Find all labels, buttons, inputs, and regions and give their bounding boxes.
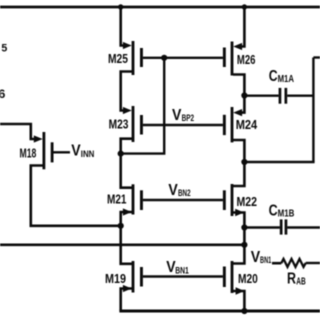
wire VSS bottom rail: [119, 310, 320, 313]
node dot top rail left: [118, 4, 123, 9]
wire M23 source down to node A: [121, 139, 133, 154]
wire M25 drain feed from top rail: [121, 7, 124, 46]
wire VBN1 stub to resistor RAB: [272, 262, 281, 265]
node dot E: [241, 224, 247, 230]
transistor M26 gate bar: [223, 48, 226, 68]
transistor M20 arrow: [236, 287, 245, 294]
wire node B down to M19 drain: [121, 226, 133, 264]
wire node A down to M21 drain: [121, 154, 133, 188]
svg-text:M22: M22: [237, 194, 258, 209]
wire CM1A right side to vertical branch: [287, 94, 313, 96]
svg-text:M21: M21: [107, 192, 127, 207]
wire M22 arrow bend and source down to node E: [233, 213, 244, 228]
svg-text:BP2: BP2: [182, 113, 195, 124]
svg-text:M18: M18: [20, 146, 37, 161]
wire right vertical branch: [312, 58, 314, 163]
wire top stub to right edge: [313, 56, 320, 58]
wire CM1B right side to right edge: [287, 226, 320, 228]
transistor M19 gate bar: [140, 267, 143, 287]
svg-text:INN: INN: [81, 149, 95, 160]
svg-text:M19: M19: [105, 271, 126, 286]
wire node E down to M20 drain: [233, 228, 244, 264]
svg-text:V: V: [71, 143, 81, 160]
transistor M22 gate bar: [223, 190, 226, 210]
wire M25 source down to M23 drain: [121, 72, 133, 111]
svg-text:5: 5: [1, 42, 7, 54]
transistor M21 arrow: [123, 208, 132, 215]
svg-text:C: C: [269, 68, 278, 85]
svg-text:BN2: BN2: [178, 188, 191, 199]
wire M19 source to bottom rail: [121, 289, 133, 312]
transistor M20 gate bar: [223, 267, 226, 288]
wire gate line M25-M26: [143, 57, 223, 59]
wire M18 drain from left edge: [0, 124, 34, 139]
svg-text:M24: M24: [236, 117, 258, 132]
transistor M19 arrow: [123, 285, 132, 292]
svg-text:M1B: M1B: [278, 208, 295, 219]
svg-text:AB: AB: [296, 277, 306, 288]
wire M18 source down to node B: [31, 166, 120, 226]
svg-text:BN1: BN1: [260, 255, 272, 266]
wire long rail to M22/M20 node: [0, 244, 244, 247]
wire gate line VBN1 M19-M20: [143, 275, 223, 277]
node dot C: [241, 92, 247, 98]
transistor M21 channel bar: [132, 184, 135, 214]
transistor M26 arrow: [233, 43, 242, 50]
transistor M23 arrow: [123, 107, 132, 114]
node dot D: [241, 159, 247, 165]
transistor M22 channel bar: [231, 184, 234, 216]
resistor RAB zigzag: [281, 259, 305, 267]
wire gate line VBN2 M21-M22: [143, 199, 223, 201]
node dot bottom rail: [241, 308, 247, 314]
svg-text:V: V: [168, 182, 178, 199]
transistor M24 gate bar: [223, 115, 226, 135]
svg-text:M1A: M1A: [278, 74, 294, 85]
svg-text:V: V: [172, 107, 182, 124]
wire M24 source down to node D: [233, 140, 244, 162]
capacitor CM1B plates: [280, 219, 283, 234]
transistor M18 arrow: [34, 135, 43, 142]
transistor M23 channel bar: [132, 106, 135, 142]
transistor M26 channel bar: [231, 42, 234, 76]
wire VDD top rail: [0, 6, 320, 9]
svg-text:BN1: BN1: [175, 265, 189, 276]
transistor M19 channel bar: [132, 261, 135, 293]
svg-text:M25: M25: [108, 51, 128, 66]
wire M26 drain feed from top rail: [240, 7, 244, 47]
transistor M24 arrow: [233, 109, 242, 116]
transistor M18 channel bar: [43, 132, 46, 169]
transistor M18 gate bar: [51, 142, 54, 162]
transistor M22 arrow: [235, 209, 244, 216]
transistor M20 channel bar: [231, 261, 234, 293]
svg-text:6: 6: [0, 89, 5, 101]
wire node D to M22 drain: [233, 162, 244, 186]
transistor M25 arrow: [123, 42, 132, 49]
node dot long rail junction: [241, 242, 247, 248]
wire M18 gate stub: [54, 151, 71, 153]
node dot gate line M25-M26: [161, 55, 167, 61]
wire node C to capacitor CM1A: [244, 94, 278, 96]
transistor M24 channel bar: [231, 107, 234, 142]
svg-text:R: R: [287, 271, 296, 288]
wire M20 source to bottom rail: [233, 291, 244, 311]
transistor M21 gate bar: [140, 190, 143, 210]
transistor M23 gate bar: [140, 115, 143, 135]
svg-text:M20: M20: [238, 271, 258, 286]
svg-text:C: C: [269, 202, 278, 219]
wire M21 arrow bend and source down to node B: [121, 212, 133, 226]
node dot top rail right: [242, 4, 247, 9]
wire gate line VBP2 M23-M24: [143, 124, 223, 126]
wire M26 source down to node C: [233, 75, 244, 96]
wire node D to right vertical branch: [244, 161, 314, 163]
wire RAB right to edge: [306, 262, 320, 264]
capacitor CM1A plates: [279, 88, 282, 104]
node dot A: [118, 151, 124, 157]
wire bias link node A to gates of M25 M26: [121, 58, 164, 154]
wire node E to capacitor CM1B: [244, 226, 280, 228]
wire node C to M24 drain: [240, 96, 244, 113]
transistor M25 gate bar: [140, 48, 143, 67]
node dot B: [118, 223, 124, 229]
transistor M25 channel bar: [132, 41, 135, 75]
svg-text:M26: M26: [237, 52, 256, 67]
svg-text:M23: M23: [109, 117, 129, 132]
